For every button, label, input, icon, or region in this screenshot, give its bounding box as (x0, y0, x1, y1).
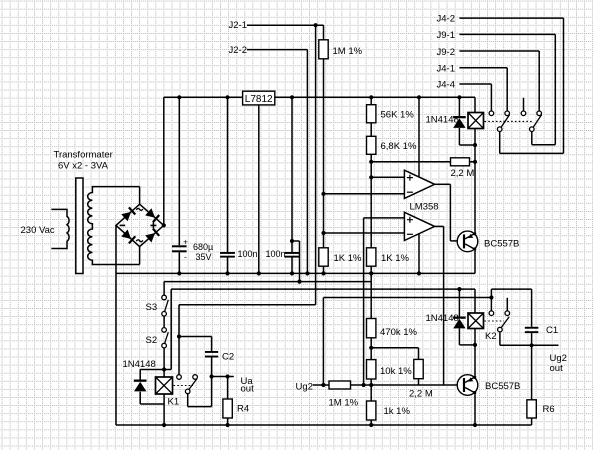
resistor 1K 1% right (367, 248, 376, 266)
wire c4 riser (538, 51, 540, 111)
contact c3 (521, 111, 526, 116)
node diode top rail dot (457, 95, 461, 99)
wire 2,2M junction down to Q1 emitter (474, 162, 476, 234)
svg-text:J9-2: J9-2 (437, 47, 455, 58)
wire op1 V+ pin (418, 97, 420, 177)
wire op1 output (435, 183, 451, 185)
wire Q2 collector to bottom rail (474, 393, 476, 425)
bridge diode bottom-left (121, 230, 131, 240)
contact c1 (489, 111, 494, 116)
resistor 1M 1% bottom (329, 381, 351, 389)
wire 1k leads (370, 385, 372, 401)
capacitor C2 (205, 351, 218, 353)
wire J4-4 stub (459, 83, 491, 85)
wire c1 riser (490, 84, 492, 111)
svg-text:K1: K1 (168, 397, 180, 408)
wire C1 bottom lead (531, 333, 533, 345)
regulator L7812 box (243, 91, 275, 105)
svg-text:+: + (183, 238, 188, 247)
wire Q1 collector to ground rail (474, 249, 476, 273)
node 100n1 gnd dot (225, 271, 229, 275)
capacitor 100n #2 leads (291, 97, 293, 253)
bridge ~ mark top (136, 208, 143, 210)
transistor Q2 BC557B (457, 375, 478, 396)
wire K2 common riser (490, 298, 492, 311)
switch S3 lever (165, 300, 169, 312)
svg-text:BC557B: BC557B (484, 238, 519, 249)
resistor 6,8K 1% (367, 136, 376, 154)
wire 470k-10k link (370, 338, 372, 360)
svg-text:J4-1: J4-1 (437, 64, 455, 75)
svg-text:S2: S2 (146, 335, 158, 346)
node K1 gnd dot (162, 423, 166, 427)
wire op2 + input (364, 217, 405, 219)
node L7812 gnd dot (257, 271, 261, 275)
wire c2 riser (506, 68, 508, 111)
wire J9-1 stub (459, 33, 555, 35)
svg-text:K2: K2 (485, 331, 497, 342)
wire C2 branch (179, 336, 212, 338)
svg-text:J2-2: J2-2 (229, 45, 247, 56)
bridge ~ mark bottom (136, 240, 143, 242)
wire b1 to J4-2 riser (499, 132, 501, 154)
transistor Q1 BC557B (457, 231, 478, 252)
wire J2-2 drop to ground (306, 50, 308, 274)
svg-text:C1: C1 (546, 325, 558, 336)
wire L7812 ground pin (258, 105, 260, 274)
svg-text:6,8K 1%: 6,8K 1% (381, 141, 417, 152)
diode 1N4148 top leads (458, 97, 460, 116)
svg-text:out: out (241, 384, 255, 395)
wire 1M divider column (323, 25, 325, 273)
transformer primary winding (51, 209, 69, 248)
wire K2 junction to Q2 emitter (474, 345, 476, 377)
svg-text:J2-1: J2-1 (229, 20, 247, 31)
transformer secondary winding (88, 187, 140, 265)
svg-text:1M 1%: 1M 1% (333, 46, 363, 57)
wire op2 + riser to Ug2 node (363, 218, 365, 385)
node 56K rail dot (369, 95, 373, 99)
node op1+ tap dot (369, 175, 373, 179)
node divider to op1- dot (321, 192, 325, 196)
resistor R4 (223, 399, 232, 418)
svg-text:1N4148: 1N4148 (426, 114, 459, 125)
node bridge + output dot (162, 223, 166, 227)
bridge diode top-left (121, 212, 131, 222)
dotted actuator link top relay (485, 120, 534, 122)
bridge rectifier diamond (116, 204, 164, 246)
wire K1 coil drive line (171, 288, 475, 290)
wire top relay coil bottom pin (474, 129, 476, 162)
wire K2 coil feed corner (474, 289, 476, 313)
dotted actuator link K1 (174, 385, 194, 387)
node K2 diode dot (457, 287, 461, 291)
svg-text:BC557B: BC557B (485, 381, 520, 392)
node J2-1 branch dot (314, 23, 318, 27)
node divider to op2- dot (321, 231, 325, 235)
node C1 dot (530, 343, 534, 347)
contact c4 (537, 111, 542, 116)
svg-text:out: out (550, 363, 564, 374)
wire secondary top to bridge (139, 187, 141, 205)
node R4 gnd dot (226, 423, 230, 427)
transformer core (76, 178, 83, 274)
wire Ug2 node line to Q2 base (351, 384, 464, 386)
svg-text:-: - (184, 253, 187, 262)
wire K1 coil bottom to ground (163, 394, 165, 425)
svg-text:6V x2 - 3VA: 6V x2 - 3VA (58, 161, 109, 172)
node J2-2 gnd dot (305, 271, 309, 275)
svg-text:Ug2: Ug2 (296, 382, 313, 393)
node 100n2 gnd dot (290, 271, 294, 275)
svg-text:1N4148: 1N4148 (123, 359, 156, 370)
wire Ua out line (212, 376, 234, 378)
capacitor 680u leads (178, 97, 180, 245)
wire b2 to J9-1 riser (531, 132, 533, 145)
node C2 branch dot (177, 334, 181, 338)
op-amp U1A LM358 (404, 170, 434, 198)
svg-text:L7812: L7812 (245, 94, 273, 105)
node R4 dot (226, 374, 230, 378)
wire S3 12V line (164, 281, 371, 283)
relay K2 coil box (468, 313, 484, 329)
wire 2,2M bottom top lead (371, 347, 418, 349)
node op2 V- gnd dot (417, 271, 421, 275)
contact c2 (505, 111, 510, 116)
wire S3 feed (163, 282, 165, 296)
node 680u rail dot (177, 95, 181, 99)
wire c3 stub (523, 98, 525, 111)
node K1 coil top junction dot (162, 367, 166, 371)
node op1 V+ rail dot (417, 95, 421, 99)
svg-text:C2: C2 (222, 352, 234, 363)
bridge - mark (120, 224, 126, 226)
lever b1 (501, 115, 510, 128)
capacitor 100n #1 (220, 252, 235, 254)
node 100n1 rail dot (225, 95, 229, 99)
wire C1 n-link (490, 289, 492, 297)
bridge + mark (150, 222, 156, 228)
wire K1 coil drive drop (170, 289, 172, 369)
node 1K left gnd dot (321, 271, 325, 275)
node Ug2 riser dot (321, 383, 325, 387)
svg-text:470k 1%: 470k 1% (380, 327, 418, 338)
dotted actuator link K2 (485, 320, 505, 322)
capacitor 100n #1 leads (227, 97, 229, 253)
svg-text:100n: 100n (266, 249, 286, 259)
node 2,2M right dot (473, 160, 477, 164)
capacitor 100n #2 (285, 252, 300, 254)
wire bridge - down to ground rail (115, 225, 117, 273)
svg-text:1k 1%: 1k 1% (384, 406, 411, 417)
wire K1 common drop (178, 305, 180, 375)
wire J2-1 stub (247, 24, 324, 26)
relay coil top (468, 113, 484, 129)
wire +12V rail (164, 96, 475, 98)
resistor 10k 1% (367, 360, 376, 379)
svg-text:2,2 M: 2,2 M (409, 389, 433, 400)
resistor R6 (527, 400, 536, 418)
svg-text:Transformater: Transformater (54, 150, 113, 161)
resistor 1M 1% top (319, 40, 328, 59)
wire J4-1 stub (459, 67, 507, 69)
svg-text:1M 1%: 1M 1% (329, 398, 359, 409)
svg-text:R6: R6 (543, 404, 555, 415)
wire 2,2M top leads (371, 161, 450, 163)
lever K1 (189, 379, 197, 390)
node Q2 collector gnd dot (473, 423, 477, 427)
wire 2,2M bottom lead (418, 379, 420, 385)
wire secondary bottom to bridge (139, 247, 141, 265)
node 680u gnd dot (177, 271, 181, 275)
wire R6 leads (531, 345, 533, 400)
lever K2 (501, 317, 509, 328)
wire K1 common line from J2-1 (179, 304, 316, 306)
wire S2 to K1 coil (163, 348, 165, 377)
contact b1 (497, 127, 502, 132)
wire op1 + input (371, 176, 404, 178)
switch S2 contact bottom (162, 343, 167, 348)
node K2 coil-diode junction dot (473, 343, 477, 347)
contact K1 moving (185, 389, 190, 394)
contact K2 common (489, 311, 494, 316)
diode 1N4148 K1 leads (140, 369, 171, 371)
node 470k-10k tap dot (369, 346, 373, 350)
contact K1 NO (193, 375, 198, 380)
node 100n2 branch dot to S3 feed (290, 239, 294, 243)
svg-text:10k 1%: 10k 1% (380, 366, 412, 377)
node 100n2 rail dot (290, 95, 294, 99)
wire Ug2 sense line (323, 297, 491, 299)
wire S3-S2 link (163, 316, 165, 328)
resistor 1k 1% (367, 401, 376, 420)
resistor 470k 1% (367, 319, 376, 338)
svg-text:35V: 35V (196, 252, 212, 262)
switch S3 contact bottom (162, 312, 167, 317)
contact b2 (530, 127, 535, 132)
wire ground rail left drop to bottom rail (115, 273, 117, 425)
wire J2-2 stub (247, 49, 307, 51)
svg-text:230 Vac: 230 Vac (21, 225, 55, 236)
svg-text:100n: 100n (238, 249, 258, 259)
wire 10k to node (370, 379, 372, 385)
wire R4 leads (227, 377, 229, 400)
capacitor C1 (525, 327, 539, 329)
wire bridge + up to rail (163, 97, 165, 225)
diode 1N4148 K2 (453, 317, 466, 319)
svg-text:1N4148: 1N4148 (426, 313, 459, 324)
node 1k gnd dot (369, 423, 373, 427)
wire op2 - input (324, 232, 405, 234)
svg-text:2,2 M: 2,2 M (451, 168, 475, 179)
bridge diode bottom-right (145, 233, 155, 243)
capacitor 680u (172, 245, 187, 247)
wire op1 - input (324, 193, 405, 195)
node coil-diode junction dot (473, 143, 477, 147)
contact K1 common (177, 375, 182, 380)
wire Ug2 stub (313, 384, 329, 386)
switch S2 lever (165, 332, 169, 343)
svg-text:1K 1%: 1K 1% (334, 253, 363, 264)
diode 1N4148 K1 (134, 380, 147, 382)
wire K2 moving loop to Ug2 out (499, 332, 501, 345)
node op2+ riser dot (362, 383, 366, 387)
node C2 Ua dot (210, 374, 214, 378)
wire lower divider column (370, 273, 372, 318)
wire J9-2 stub (459, 50, 539, 52)
wire K2 coil bottom pin (474, 329, 476, 345)
node S3 line 12V dot (297, 280, 301, 284)
svg-text:LM358: LM358 (410, 202, 439, 213)
svg-text:680µ: 680µ (193, 242, 213, 252)
op-amp U1B LM358 (404, 212, 434, 240)
node 1K right gnd dot (369, 271, 373, 275)
resistor 56K 1% (367, 105, 376, 123)
resistor 1K 1% left (319, 248, 328, 266)
bridge diode top-right (145, 208, 155, 218)
wire rail corner down to top relay coil (474, 97, 476, 112)
svg-text:56K 1%: 56K 1% (381, 110, 415, 121)
node 10k-1k junction dot (369, 383, 373, 387)
wire ground rail (116, 272, 475, 274)
wire bottom ground rail (116, 424, 532, 426)
contact K2 NO (505, 311, 510, 316)
switch S2 contact top (162, 328, 167, 333)
svg-text:J9-1: J9-1 (437, 30, 455, 41)
wire K2 NO stub (506, 298, 508, 311)
wire J4-2 stub (459, 17, 563, 19)
svg-text:J4-2: J4-2 (437, 14, 455, 25)
resistor 2,2M bottom (414, 359, 423, 378)
svg-text:J4-4: J4-4 (437, 80, 455, 91)
wire K1 moving contact loop (187, 394, 189, 407)
wire 12V branch to S3 line (292, 240, 300, 242)
relay K1 coil box (156, 377, 173, 394)
diode 1N4148 K2 leads (458, 289, 460, 316)
svg-text:R4: R4 (237, 404, 249, 415)
node K2 common dot (489, 295, 493, 299)
diode 1N4148 top (453, 116, 466, 118)
wire op2 V- pin to ground (418, 233, 420, 273)
wire 56K divider column (370, 97, 372, 273)
node 2,2M tap dot (369, 160, 373, 164)
wire C2 bottom to Ua line (211, 358, 213, 377)
lever b2 (533, 115, 542, 128)
wire op2 output (435, 225, 444, 227)
svg-text:1K 1%: 1K 1% (381, 253, 410, 264)
switch S3 contact top (162, 295, 167, 300)
svg-text:S3: S3 (146, 302, 158, 313)
resistor 2,2M top (451, 158, 470, 166)
wire J2-1 drop to K1 common line (315, 25, 317, 305)
wire Ug2 sense riser (322, 298, 324, 386)
contact K2 moving (498, 327, 503, 332)
